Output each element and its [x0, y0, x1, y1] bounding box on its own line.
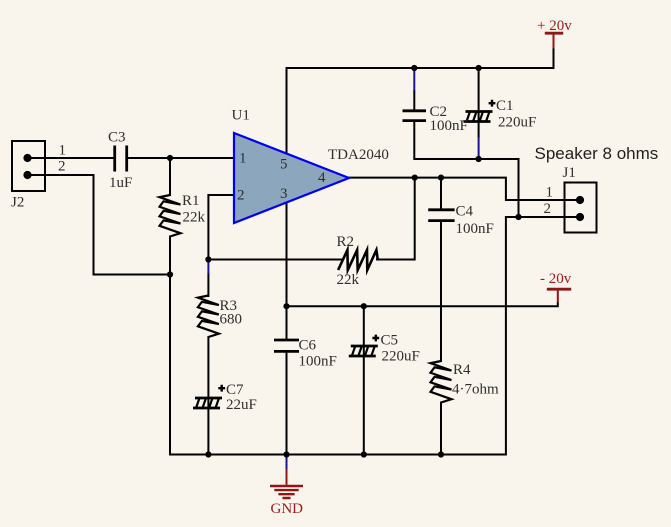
svg-text:22uF: 22uF: [226, 397, 257, 413]
svg-text:4·7ohm: 4·7ohm: [452, 382, 499, 398]
svg-text:TDA2040: TDA2040: [328, 147, 389, 163]
svg-text:220uF: 220uF: [498, 115, 536, 131]
svg-text:C6: C6: [299, 338, 317, 354]
svg-text:100nF: 100nF: [430, 118, 468, 134]
svg-text:100nF: 100nF: [299, 354, 337, 370]
svg-text:2: 2: [237, 188, 245, 204]
svg-text:3: 3: [280, 186, 288, 202]
svg-text:22k: 22k: [337, 272, 360, 288]
svg-text:1: 1: [59, 143, 67, 159]
svg-text:GND: GND: [271, 501, 304, 517]
svg-text:J2: J2: [11, 195, 24, 211]
svg-text:- 20v: - 20v: [540, 271, 572, 287]
svg-text:R2: R2: [337, 234, 355, 250]
svg-text:C5: C5: [381, 333, 399, 349]
svg-text:680: 680: [220, 312, 243, 328]
svg-text:220uF: 220uF: [382, 349, 420, 365]
svg-text:1: 1: [546, 185, 554, 201]
svg-text:22k: 22k: [183, 210, 206, 226]
svg-text:+ 20v: + 20v: [537, 18, 572, 34]
svg-text:100nF: 100nF: [456, 221, 494, 237]
svg-text:1: 1: [239, 151, 247, 167]
svg-text:Speaker 8 ohms: Speaker 8 ohms: [535, 144, 659, 163]
svg-text:1uF: 1uF: [109, 175, 132, 191]
svg-text:C4: C4: [456, 204, 474, 220]
svg-text:4: 4: [318, 170, 326, 186]
svg-text:2: 2: [58, 159, 66, 175]
svg-text:C7: C7: [226, 382, 244, 398]
svg-text:C3: C3: [108, 130, 126, 146]
svg-text:R1: R1: [182, 193, 200, 209]
svg-text:R4: R4: [453, 362, 471, 378]
svg-text:J1: J1: [563, 165, 576, 181]
svg-text:U1: U1: [232, 108, 250, 124]
svg-text:C1: C1: [496, 98, 514, 114]
svg-text:2: 2: [544, 201, 552, 217]
svg-text:5: 5: [280, 157, 288, 173]
